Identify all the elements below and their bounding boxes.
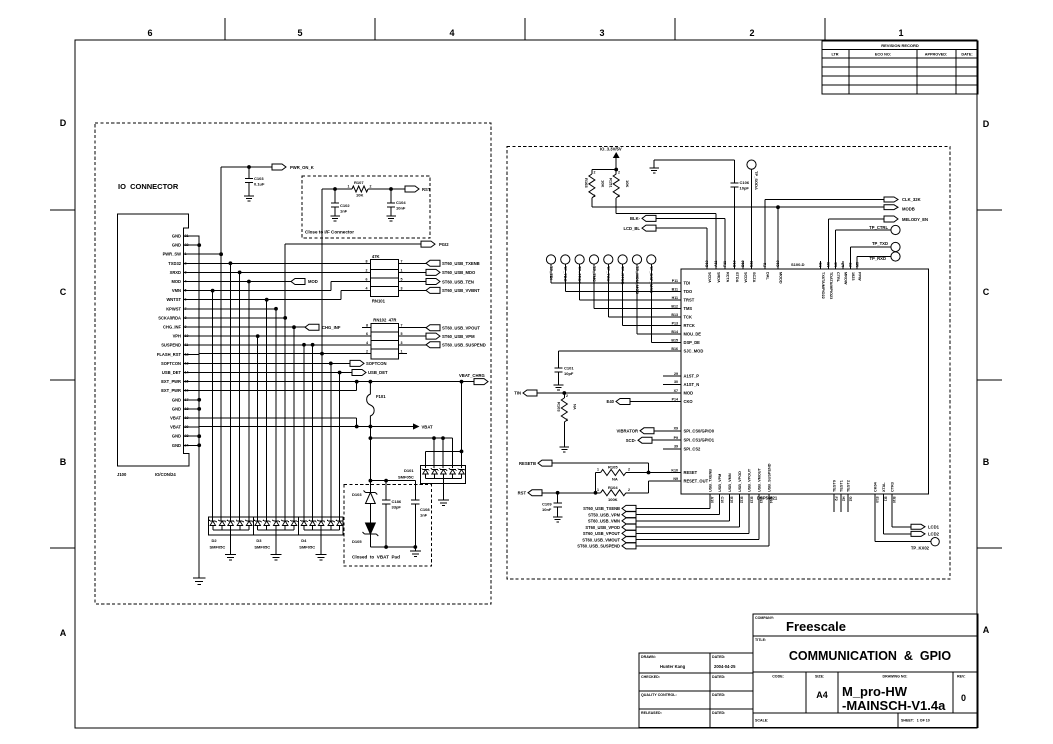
- junction GND pin 18: [197, 407, 201, 411]
- svg-text:X8: X8: [849, 263, 853, 267]
- connector J100 body: [118, 214, 189, 466]
- junction C102: [333, 187, 337, 191]
- test point TP_TCK: [604, 255, 613, 264]
- svg-text:CODE:: CODE:: [772, 675, 784, 679]
- net flag ST60_USB_TXENB: [426, 260, 440, 266]
- ground C101: [554, 385, 564, 390]
- svg-text:6: 6: [366, 278, 368, 282]
- svg-text:F2: F2: [834, 497, 838, 501]
- svg-text:N8: N8: [834, 262, 838, 267]
- svg-text:B14: B14: [671, 330, 678, 334]
- D101 diode 2: [431, 468, 439, 474]
- row tick marks right: [977, 209, 1002, 211]
- wire D4 anode bus: [304, 529, 340, 531]
- svg-text:10nF: 10nF: [396, 206, 406, 211]
- junction R103 tap: [562, 391, 566, 395]
- capacitor C103: [248, 167, 250, 178]
- test point TP_TRST: [575, 255, 584, 264]
- net flag LCD1: [911, 524, 925, 529]
- wire TP_SODA stub: [751, 169, 753, 269]
- svg-text:TDATA/MPIO23: TDATA/MPIO23: [829, 272, 833, 299]
- svg-text:LCD1: LCD1: [928, 525, 940, 530]
- svg-text:VBAT: VBAT: [170, 425, 181, 430]
- svg-text:A: A: [60, 628, 67, 638]
- svg-text:GND: GND: [172, 443, 181, 448]
- wire TP_MOU_MOD to U101: [636, 264, 638, 334]
- svg-text:TMS: TMS: [684, 306, 693, 311]
- resistor R165: [589, 174, 595, 198]
- junction PWR_SW branch: [219, 252, 223, 256]
- svg-text:MROW: MROW: [844, 272, 848, 285]
- svg-text:B13: B13: [749, 497, 753, 504]
- ground VBAT pad: [410, 551, 421, 557]
- svg-text:B10: B10: [730, 497, 734, 504]
- D2 diode 4: [236, 520, 244, 526]
- capacitor C108: [414, 481, 416, 500]
- D4 diode 1: [300, 520, 308, 526]
- U101 top pin F2 DAL: [764, 200, 766, 270]
- ground C109: [553, 517, 563, 522]
- svg-text:2: 2: [366, 268, 368, 272]
- wire PWR_SW ESD drop: [220, 254, 222, 521]
- svg-text:SUSPEND: SUSPEND: [161, 343, 181, 348]
- wire ST50_USB_VPM to U101: [636, 514, 720, 516]
- svg-text:GND: GND: [172, 406, 181, 411]
- junction MODB col: [776, 205, 780, 209]
- net flag MODB: [884, 205, 898, 210]
- junction C103 tap: [247, 165, 251, 169]
- svg-text:1: 1: [348, 185, 350, 189]
- svg-text:CLK_32K: CLK_32K: [902, 197, 921, 202]
- fuse F101: [367, 382, 375, 427]
- svg-text:ST60_USB_VMOUT: ST60_USB_VMOUT: [582, 537, 620, 542]
- capacitor C186: [385, 481, 387, 500]
- svg-text:USB_TXENB: USB_TXENB: [708, 469, 712, 492]
- test point TP_RXD: [891, 252, 900, 261]
- svg-text:EXT_PWR: EXT_PWR: [161, 388, 181, 393]
- net flag CLK_32K: [884, 197, 898, 202]
- svg-text:F2: F2: [763, 263, 767, 267]
- junction D101 bus origin: [369, 436, 373, 440]
- svg-text:6: 6: [366, 332, 368, 336]
- svg-text:ST60_USB_TEN: ST60_USB_TEN: [442, 279, 474, 284]
- svg-text:3: 3: [599, 28, 604, 38]
- capacitor C101: [558, 351, 560, 368]
- svg-text:MODD: MODD: [779, 272, 783, 284]
- svg-text:SHEET: 1 OF 10: SHEET: 1 OF 10: [901, 719, 930, 723]
- wire R105 to RST net: [595, 473, 597, 493]
- svg-text:2: 2: [370, 185, 372, 189]
- svg-text:RST: RST: [518, 491, 527, 496]
- U101 SPI_CS2 stub: [663, 448, 681, 450]
- svg-text:USB_VPOD: USB_VPOD: [738, 471, 742, 492]
- junction WNTST ESD: [265, 298, 269, 302]
- wire ST60_USB_TXENB to U101: [636, 507, 710, 509]
- svg-text:DSP_DE: DSP_DE: [684, 340, 701, 345]
- svg-text:N6: N6: [819, 262, 823, 267]
- svg-text:M5: M5: [855, 262, 859, 267]
- wire TP_RXD: [857, 256, 891, 258]
- ground C103: [244, 196, 254, 201]
- svg-text:RCTA: RCTA: [726, 272, 730, 283]
- wire PWR_SW up to PWR_ON_K: [220, 167, 222, 254]
- wire D101 upper bus: [426, 450, 462, 452]
- svg-text:C108: C108: [420, 507, 430, 512]
- wire EXT_PWR row to VBAT_CHRG: [199, 381, 474, 383]
- svg-text:7: 7: [401, 259, 403, 263]
- junction pullup: [614, 168, 618, 172]
- wire ST60_USB_SUSPEND to U101: [636, 545, 769, 547]
- svg-text:PWR_SW: PWR_SW: [163, 252, 182, 257]
- svg-text:SCDA: SCDA: [744, 272, 748, 283]
- svg-text:ST50_USB_VPM: ST50_USB_VPM: [588, 512, 620, 517]
- net flag SOFTCON: [350, 360, 364, 366]
- svg-text:QUALITY CONTROL:: QUALITY CONTROL:: [641, 693, 677, 697]
- svg-text:2: 2: [618, 171, 620, 175]
- wire TIN to MOD: [537, 392, 681, 394]
- capacitor C104: [390, 189, 392, 203]
- svg-text:B: B: [983, 457, 990, 467]
- svg-text:A10: A10: [710, 497, 714, 504]
- U101 top pin F11 RCTA: [724, 218, 726, 269]
- svg-text:P14: P14: [672, 397, 678, 401]
- RN102 pin1 stub: [399, 353, 408, 355]
- svg-text:FLASH_RST: FLASH_RST: [157, 352, 182, 357]
- wire MOD row: [199, 281, 291, 283]
- svg-text:6: 6: [147, 28, 152, 38]
- svg-text:USB_DET: USB_DET: [368, 370, 388, 375]
- junction EXT_PWR a: [355, 380, 359, 384]
- svg-text:NA: NA: [573, 404, 578, 410]
- test point TP_TDO: [561, 255, 570, 264]
- svg-text:PGI2: PGI2: [439, 242, 449, 247]
- svg-text:C109: C109: [542, 502, 552, 507]
- diode array D2 SMF05C: [209, 517, 254, 535]
- svg-text:C104: C104: [396, 200, 406, 205]
- svg-text:7: 7: [401, 324, 403, 328]
- svg-text:LCD2: LCD2: [928, 532, 940, 537]
- wire pullup branch: [592, 169, 616, 171]
- junction EXT_PWR c: [460, 380, 464, 384]
- junction KPWST ESD: [274, 307, 278, 311]
- svg-text:DAL: DAL: [766, 272, 770, 280]
- svg-text:LTR: LTR: [831, 53, 838, 57]
- junction SUSPEND ESD: [311, 343, 315, 347]
- svg-text:C101: C101: [564, 366, 574, 371]
- svg-text:B13: B13: [759, 497, 763, 504]
- ground D4: [316, 555, 327, 561]
- svg-text:EXT_PWR: EXT_PWR: [161, 379, 181, 384]
- wire VPH ESD drop: [257, 336, 259, 521]
- U101 top pin M8 TDATA/MPIO23: [827, 219, 829, 269]
- svg-text:Hunter Kang: Hunter Kang: [660, 664, 686, 669]
- svg-text:10pF: 10pF: [564, 371, 574, 376]
- D101 diode 4: [449, 468, 457, 474]
- U101 top pin N6 TX6TA/MPIO22: [820, 261, 822, 269]
- wire SOFTCON row: [199, 362, 350, 364]
- svg-text:H2: H2: [841, 497, 845, 502]
- svg-text:TIN: TIN: [514, 391, 521, 396]
- svg-text:100K: 100K: [608, 497, 618, 502]
- svg-text:MOU_DE: MOU_DE: [684, 332, 702, 337]
- svg-text:RTCK: RTCK: [684, 323, 695, 328]
- svg-text:39: 39: [674, 445, 678, 449]
- svg-text:VBAT: VBAT: [170, 416, 181, 421]
- svg-text:SIZE:: SIZE:: [815, 675, 824, 679]
- svg-text:5: 5: [297, 28, 302, 38]
- svg-text:COMMUNICATION & GPIO: COMMUNICATION & GPIO: [789, 649, 952, 663]
- wire D101 drop4: [452, 438, 454, 468]
- svg-text:R103: R103: [557, 402, 562, 412]
- svg-text:IO/CON/24: IO/CON/24: [155, 472, 176, 477]
- svg-text:33pF: 33pF: [392, 505, 402, 510]
- svg-text:R151: R151: [609, 178, 614, 188]
- svg-text:TCK: TCK: [684, 315, 692, 320]
- svg-text:RESET: RESET: [684, 470, 698, 475]
- junction pad bus left: [369, 479, 373, 483]
- D2 diode 1: [209, 520, 217, 526]
- wire ST60_USB_VPOD to U101: [636, 526, 739, 528]
- wire VBAT row: [199, 426, 413, 428]
- title block outline: [753, 614, 978, 728]
- ground D3: [271, 555, 282, 561]
- wire SOFTCON ESD drop: [330, 363, 332, 521]
- test point TP_TMS: [589, 255, 598, 264]
- resistor R105: [596, 472, 601, 474]
- svg-text:X7: X7: [674, 389, 678, 393]
- wire WNTST step to RN101 pin4: [340, 290, 342, 299]
- svg-text:PPW: PPW: [858, 272, 862, 281]
- svg-text:RELEASED:: RELEASED:: [641, 711, 662, 715]
- U101 A1ST_P stub: [663, 375, 681, 377]
- svg-text:M_pro-HW: M_pro-HW: [842, 684, 908, 699]
- svg-text:ST60_USB_VPM: ST60_USB_VPM: [442, 334, 475, 339]
- svg-text:SMF05C: SMF05C: [398, 475, 414, 480]
- svg-text:CHECKED:: CHECKED:: [641, 675, 660, 679]
- svg-text:DATED:: DATED:: [712, 711, 725, 715]
- svg-text:5: 5: [401, 278, 403, 282]
- svg-text:H11: H11: [672, 296, 678, 300]
- U101 top pin L7 MROW: [842, 261, 844, 269]
- U101 top pin A11 SRDA: [715, 214, 717, 270]
- svg-text:TXD32: TXD32: [168, 261, 181, 266]
- svg-text:30: 30: [674, 380, 678, 384]
- svg-text:TEST0: TEST0: [832, 480, 836, 492]
- wire D101 drop3: [442, 438, 444, 468]
- U101 top pin D10 SCDA: [706, 261, 708, 269]
- approvals table: [639, 653, 753, 728]
- svg-text:SCD-: SCD-: [626, 438, 637, 443]
- junction GND pin 23: [197, 434, 201, 438]
- wire pad bottom bus: [370, 546, 415, 548]
- svg-text:DATED:: DATED:: [712, 655, 725, 659]
- svg-text:SOFTCON: SOFTCON: [366, 361, 386, 366]
- wire WNTST ESD drop: [266, 300, 268, 521]
- svg-text:5: 5: [401, 332, 403, 336]
- ground D101: [438, 500, 449, 506]
- svg-text:TP_KX02: TP_KX02: [911, 546, 930, 551]
- net flag ST60_USB_VPM: [426, 333, 440, 339]
- wire EXT_PWR pin16 step: [199, 390, 356, 392]
- svg-text:A1ST_P: A1ST_P: [684, 374, 700, 379]
- svg-text:CHG_INF: CHG_INF: [163, 325, 181, 330]
- wire spare ESD drop D4 pin1: [303, 345, 305, 521]
- U101 bottom pin H2 TEST1: [840, 494, 842, 512]
- svg-text:K10: K10: [671, 468, 678, 472]
- test point TP_CTRL: [891, 225, 900, 234]
- svg-text:C: C: [983, 287, 990, 297]
- svg-text:10K: 10K: [625, 180, 630, 187]
- wire E40 to CKO: [630, 401, 681, 403]
- svg-text:IO CONNECTOR: IO CONNECTOR: [118, 182, 179, 191]
- svg-text:1: 1: [898, 28, 903, 38]
- junction GND pin 24: [197, 443, 201, 447]
- svg-text:B15: B15: [671, 338, 678, 342]
- junction D101 bus a: [432, 436, 436, 440]
- svg-text:1: 1: [597, 468, 599, 472]
- svg-text:ST60_USB_VPOUT: ST60_USB_VPOUT: [442, 326, 480, 331]
- svg-text:TEST2: TEST2: [847, 480, 851, 492]
- svg-text:RN102 47R: RN102 47R: [373, 317, 396, 322]
- net flag ST60_USB_MDO: [426, 269, 440, 275]
- net flag MOD: [291, 279, 305, 285]
- svg-text:GND: GND: [172, 397, 181, 402]
- D2 diode 5: [245, 520, 253, 526]
- wire GND bus vertical: [198, 236, 200, 578]
- svg-text:ECO NO:: ECO NO:: [875, 53, 891, 57]
- svg-text:10nF: 10nF: [542, 507, 552, 512]
- svg-text:2: 2: [366, 350, 368, 354]
- U101 bottom pin F2 TEST0: [833, 494, 835, 512]
- row tick marks left: [50, 209, 75, 211]
- svg-text:GND: GND: [172, 434, 181, 439]
- U101 bottom pin G2 TEST2: [847, 494, 849, 512]
- D4 diode 3: [317, 520, 325, 526]
- svg-text:USB_VPOUT: USB_VPOUT: [748, 468, 752, 492]
- svg-text:TDO: TDO: [684, 289, 693, 294]
- wire SCKA/IRDA row: [199, 317, 285, 319]
- test point TP_MOU_MOD: [632, 255, 641, 264]
- svg-text:C: C: [60, 287, 67, 297]
- wire D3 anode bus: [258, 529, 294, 531]
- wire BLK- to U101: [656, 217, 725, 219]
- net flag ST60_USB_TEN: [426, 279, 440, 285]
- svg-text:MODB: MODB: [902, 206, 915, 211]
- svg-text:SMF05C: SMF05C: [254, 545, 270, 550]
- D3 diode 2: [263, 520, 271, 526]
- svg-text:VBAT: VBAT: [422, 424, 434, 429]
- svg-text:SPI_CS1/GPIO1: SPI_CS1/GPIO1: [684, 438, 715, 443]
- svg-text:D10: D10: [733, 260, 737, 267]
- svg-text:CHG_INF: CHG_INF: [322, 325, 341, 330]
- U101 bottom pin B10 CTR3: [891, 494, 893, 527]
- svg-text:TX6TA/MPIO22: TX6TA/MPIO22: [821, 272, 825, 299]
- junction C104: [389, 187, 393, 191]
- svg-text:4: 4: [366, 341, 368, 345]
- wire D103 to D105: [369, 504, 371, 524]
- wire R104 to RESET_OUT: [648, 481, 650, 493]
- test point TP_TXD: [891, 242, 900, 251]
- junction VMN ESD: [211, 289, 215, 293]
- U101 bottom pin B1 XTAL: [882, 494, 884, 534]
- svg-text:2004-04-25: 2004-04-25: [714, 664, 736, 669]
- node VBAT arrow: [413, 423, 420, 429]
- column tick marks top: [224, 18, 226, 40]
- svg-text:SJC_MOD: SJC_MOD: [684, 349, 704, 354]
- wire TXD32 row to RN101: [199, 262, 370, 264]
- DSP U101 body DSP56821: [681, 269, 929, 494]
- svg-text:G2: G2: [848, 497, 852, 502]
- svg-text:A4: A4: [816, 690, 828, 700]
- D101 diode 5: [458, 468, 466, 474]
- net flag LCD2: [911, 531, 925, 536]
- svg-text:SCZA: SCZA: [752, 272, 756, 283]
- test point TP_SODA: [747, 160, 756, 169]
- svg-text:P11: P11: [672, 279, 678, 283]
- svg-text:RST: RST: [422, 187, 431, 192]
- wire pin21 to bus: [184, 235, 200, 237]
- U101 top pin N8 CTRL: [835, 230, 837, 269]
- svg-text:TITLE:: TITLE:: [755, 638, 766, 642]
- U101 top pin C10 MODD: [777, 207, 779, 269]
- junction XRXD ESD: [238, 271, 242, 275]
- junction D101 upper: [460, 450, 464, 454]
- wire DAL line to CLK_32K: [765, 199, 884, 201]
- wire RST net vertical: [321, 189, 323, 354]
- svg-text:MOD: MOD: [684, 391, 694, 396]
- junction MOD ESD: [247, 280, 251, 284]
- wire D2 gnd drop: [230, 530, 232, 555]
- svg-text:ST60_USB_VMN: ST60_USB_VMN: [588, 519, 620, 524]
- svg-text:SCALE:: SCALE:: [755, 719, 768, 723]
- svg-text:COMPANY:: COMPANY:: [755, 616, 774, 620]
- svg-text:1: 1: [401, 350, 403, 354]
- junction CHG_INF ESD: [292, 325, 296, 329]
- D4 diode 2: [309, 520, 317, 526]
- svg-text:PWR_ON_K: PWR_ON_K: [290, 165, 314, 170]
- net flag PWR_ON_K: [272, 164, 286, 170]
- svg-text:2: 2: [628, 488, 630, 492]
- svg-text:CKO: CKO: [684, 399, 694, 404]
- wire EXT_PWR down to D101: [461, 382, 463, 452]
- svg-text:GND: GND: [172, 234, 181, 239]
- svg-text:BLK-: BLK-: [630, 216, 641, 221]
- wire R103 to gnd: [563, 422, 565, 447]
- svg-text:XTAL: XTAL: [882, 482, 886, 492]
- wire TP_TDO to U101: [564, 264, 566, 291]
- svg-text:E40: E40: [607, 399, 615, 404]
- wire RESETB to RESET: [552, 462, 649, 464]
- svg-text:REV:: REV:: [957, 675, 965, 679]
- svg-text:1: 1: [597, 488, 599, 492]
- U101 top pin X8 1823: [849, 247, 851, 269]
- D3 diode 3: [272, 520, 280, 526]
- D4 diode 4: [327, 520, 335, 526]
- svg-text:B: B: [60, 457, 67, 467]
- junction TXD32 ESD: [229, 261, 233, 265]
- capacitor C106: [734, 160, 736, 183]
- svg-text:0.1uF: 0.1uF: [254, 182, 265, 187]
- svg-text:D10: D10: [741, 260, 745, 267]
- wire PWR_SW row: [199, 253, 221, 255]
- svg-text:TDI: TDI: [684, 281, 691, 286]
- net flag MELODY_EN: [884, 216, 898, 222]
- svg-text:F101: F101: [376, 394, 386, 399]
- svg-text:RESETB: RESETB: [519, 461, 536, 466]
- U101 top pin M5 PPW: [856, 257, 858, 270]
- svg-text:B12: B12: [671, 304, 678, 308]
- wire TP_RTCK to U101: [622, 264, 624, 325]
